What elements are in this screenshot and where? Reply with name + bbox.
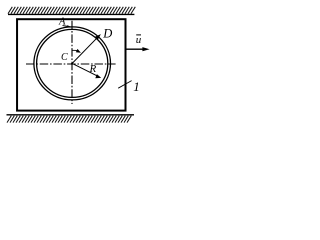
ball inner circle: [37, 29, 108, 97]
floor line: [7, 114, 135, 116]
D arrowhead: [95, 34, 101, 40]
svg-text:D: D: [102, 26, 112, 40]
svg-text:C: C: [61, 52, 68, 63]
center dot: [71, 63, 73, 65]
horizontal centerline: [26, 63, 116, 65]
R radius line: [72, 63, 98, 76]
svg-text:R: R: [89, 63, 97, 75]
ceiling line: [8, 13, 134, 15]
svg-text:u: u: [136, 34, 142, 46]
leader arrow from A to circle top: [63, 25, 69, 28]
R arrowhead: [95, 74, 101, 78]
angle arrow at C: [72, 49, 77, 51]
D radius line: [72, 36, 98, 63]
velocity arrow u: [126, 48, 143, 50]
ceiling hatching: [8, 7, 135, 14]
leader line for label 1: [118, 81, 131, 89]
vessel box wall (item 1): [17, 19, 125, 110]
vertical centerline: [71, 21, 73, 104]
svg-text:1: 1: [133, 79, 140, 94]
ball outer circle: [34, 27, 111, 100]
floor hatching: [7, 116, 131, 123]
